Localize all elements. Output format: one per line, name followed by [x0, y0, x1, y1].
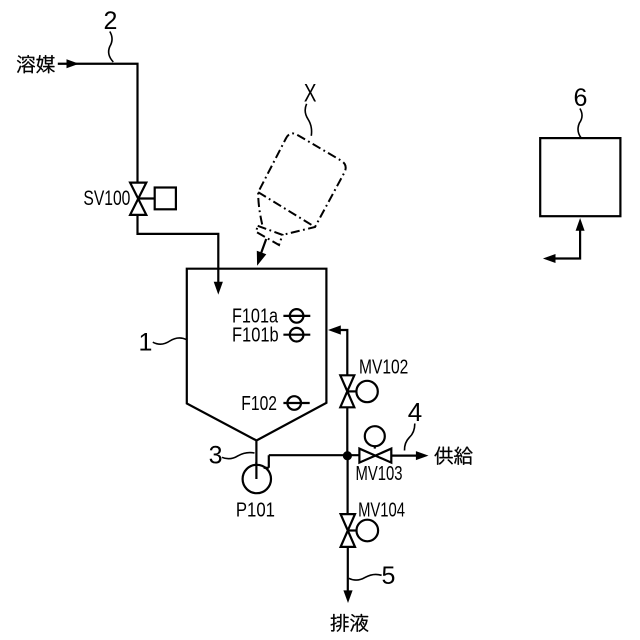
arrow up into box 6: [576, 218, 585, 231]
leader squiggle for 1: [153, 338, 187, 344]
arrow into tank side: [328, 325, 341, 334]
svg-text:MV103: MV103: [356, 463, 403, 485]
arrow into tank top: [214, 282, 223, 295]
arrow bottle to tank: [261, 239, 267, 255]
svg-text:MV102: MV102: [359, 357, 408, 379]
sensor F101a: [290, 309, 304, 323]
svg-text:F101b: F101b: [232, 324, 279, 346]
tank 1: [187, 269, 327, 441]
wire riser junction to tank inlet: [341, 330, 348, 456]
bottle X (phantom outline): [256, 133, 346, 245]
valve MV103: [359, 449, 391, 463]
svg-text:4: 4: [408, 397, 422, 427]
wire SV100 to actuator box: [138, 197, 155, 199]
junction node: [343, 451, 352, 460]
svg-text:2: 2: [104, 7, 118, 35]
pump outlet wire: [264, 455, 269, 468]
leader squiggle for 3: [222, 453, 255, 459]
svg-text:3: 3: [209, 442, 223, 470]
leader squiggle for X: [305, 104, 311, 136]
arrow drain: [343, 590, 352, 603]
valve SV100: [130, 183, 146, 215]
label 供給 (supply): [434, 447, 472, 465]
wire junction to MV104: [347, 456, 349, 591]
svg-text:6: 6: [574, 84, 588, 112]
arrow supply: [416, 451, 429, 460]
leader squiggle for 5: [349, 574, 382, 580]
arrow left from box 6: [543, 254, 556, 263]
svg-text:X: X: [304, 80, 317, 108]
svg-text:SV100: SV100: [83, 187, 130, 210]
leader squiggle for 2: [109, 32, 114, 63]
wire SV100 to tank inlet: [138, 215, 219, 282]
wire solvent to SV100: [58, 64, 138, 183]
sensor F101b: [290, 328, 304, 342]
leader squiggle for 6: [578, 109, 582, 139]
label 排液 (drain): [331, 614, 369, 632]
svg-text:5: 5: [382, 562, 396, 590]
wire box 6 signal: [555, 229, 581, 259]
sensor F102: [287, 396, 301, 410]
svg-text:1: 1: [139, 329, 153, 357]
label 溶媒 (solvent): [17, 55, 55, 73]
actuator box of SV100: [155, 188, 176, 210]
controller box 6: [540, 138, 620, 216]
svg-text:F102: F102: [241, 393, 277, 415]
wire pump to junction and MV103: [269, 454, 360, 456]
arrow solvent inlet: [67, 59, 80, 68]
svg-text:MV104: MV104: [358, 500, 405, 522]
pump P101: [243, 465, 271, 493]
valve MV102: [340, 375, 354, 407]
wire tank outlet to pump: [255, 441, 257, 480]
svg-text:P101: P101: [236, 500, 275, 522]
wire MV103 to supply: [391, 455, 417, 457]
leader squiggle for 4: [404, 424, 414, 451]
valve MV104: [341, 514, 355, 547]
